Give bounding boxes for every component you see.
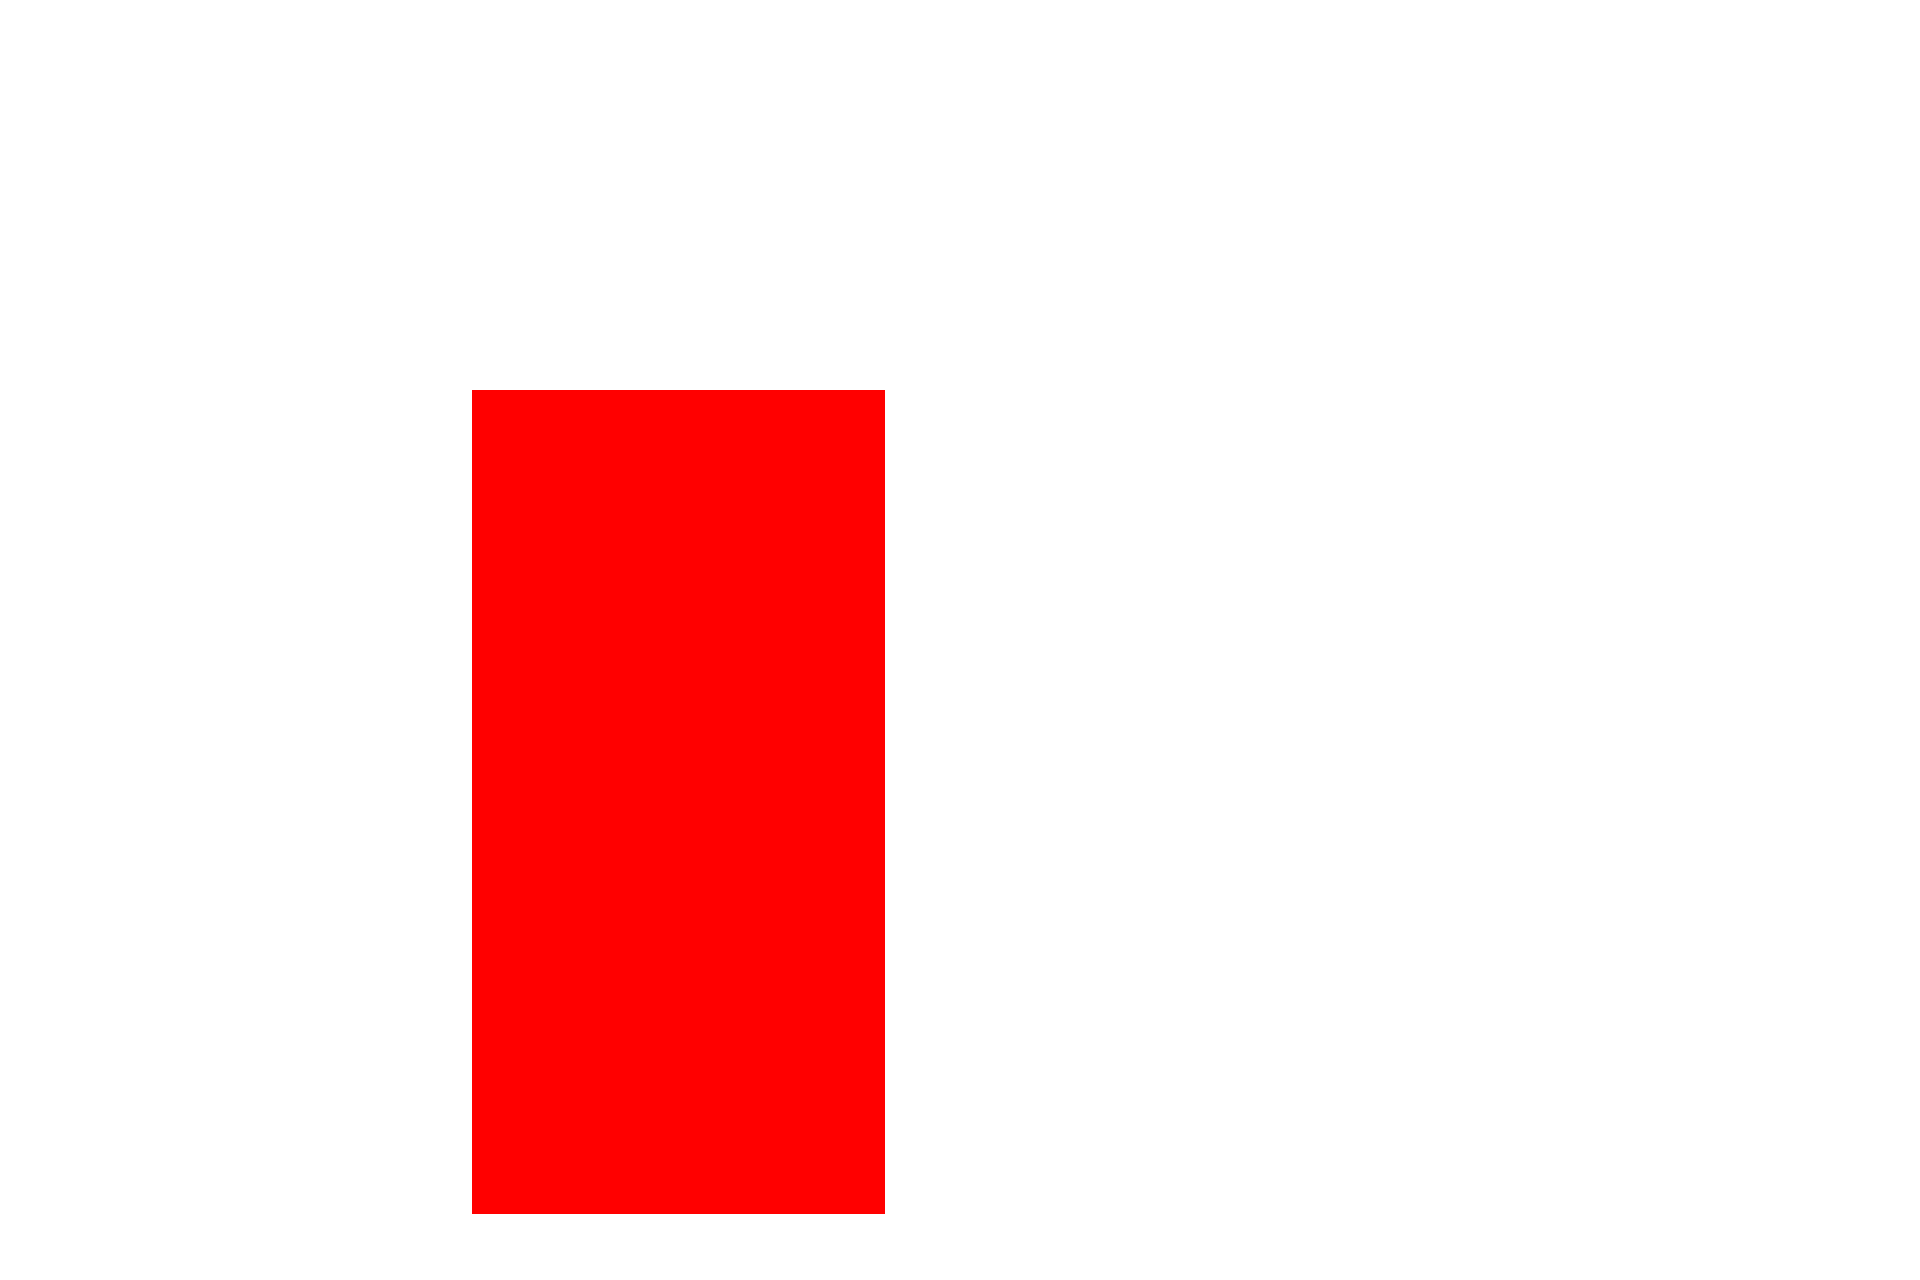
red rectangle — [472, 390, 885, 1214]
